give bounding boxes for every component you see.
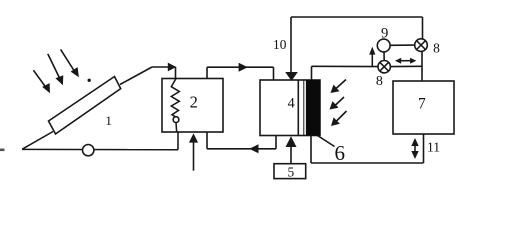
- svg-text:4: 4: [288, 96, 295, 112]
- svg-text:5: 5: [287, 164, 294, 179]
- svg-text:11: 11: [427, 140, 440, 155]
- svg-text:10: 10: [273, 37, 287, 52]
- svg-text:7: 7: [418, 96, 426, 113]
- svg-text:9: 9: [381, 26, 388, 42]
- svg-text:6: 6: [334, 141, 345, 165]
- svg-text:8: 8: [376, 74, 383, 89]
- svg-text:1: 1: [105, 113, 112, 128]
- svg-text:8: 8: [433, 41, 440, 56]
- svg-text:2: 2: [190, 93, 198, 112]
